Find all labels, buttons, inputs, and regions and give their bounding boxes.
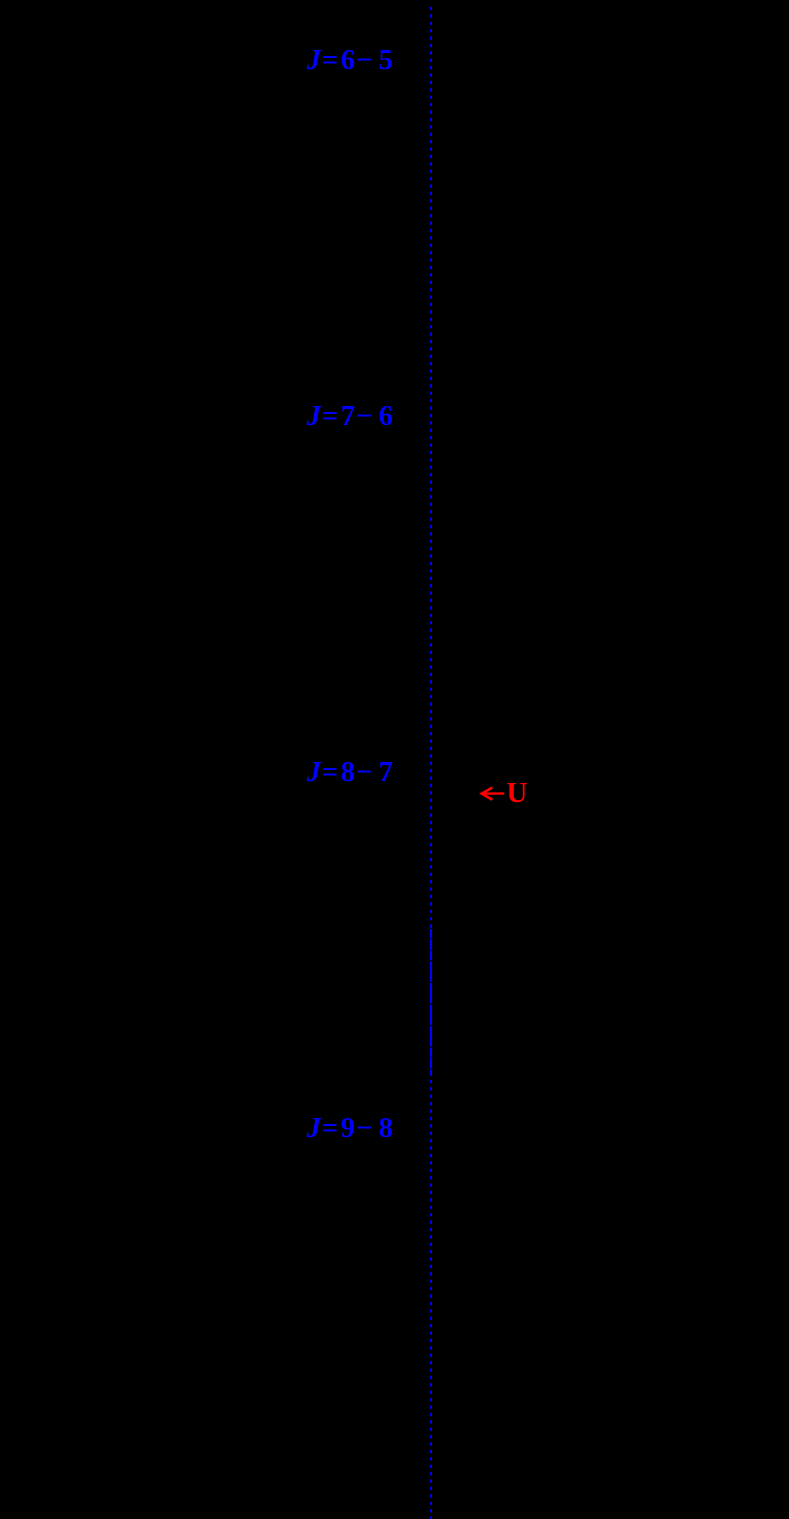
svg-text:U: U — [507, 777, 528, 809]
red arrow pointing to unidentified line — [482, 788, 505, 800]
svg-text:J=7−6: J=7−6 — [306, 401, 393, 432]
svg-text:J=8−7: J=8−7 — [306, 757, 393, 788]
svg-text:J=9−8: J=9−8 — [306, 1113, 393, 1144]
dense/solid segment of the line — [430, 929, 432, 1075]
dotted vertical line (systemic velocity marker) — [430, 7, 432, 1519]
svg-text:J=6−5: J=6−5 — [306, 45, 393, 76]
